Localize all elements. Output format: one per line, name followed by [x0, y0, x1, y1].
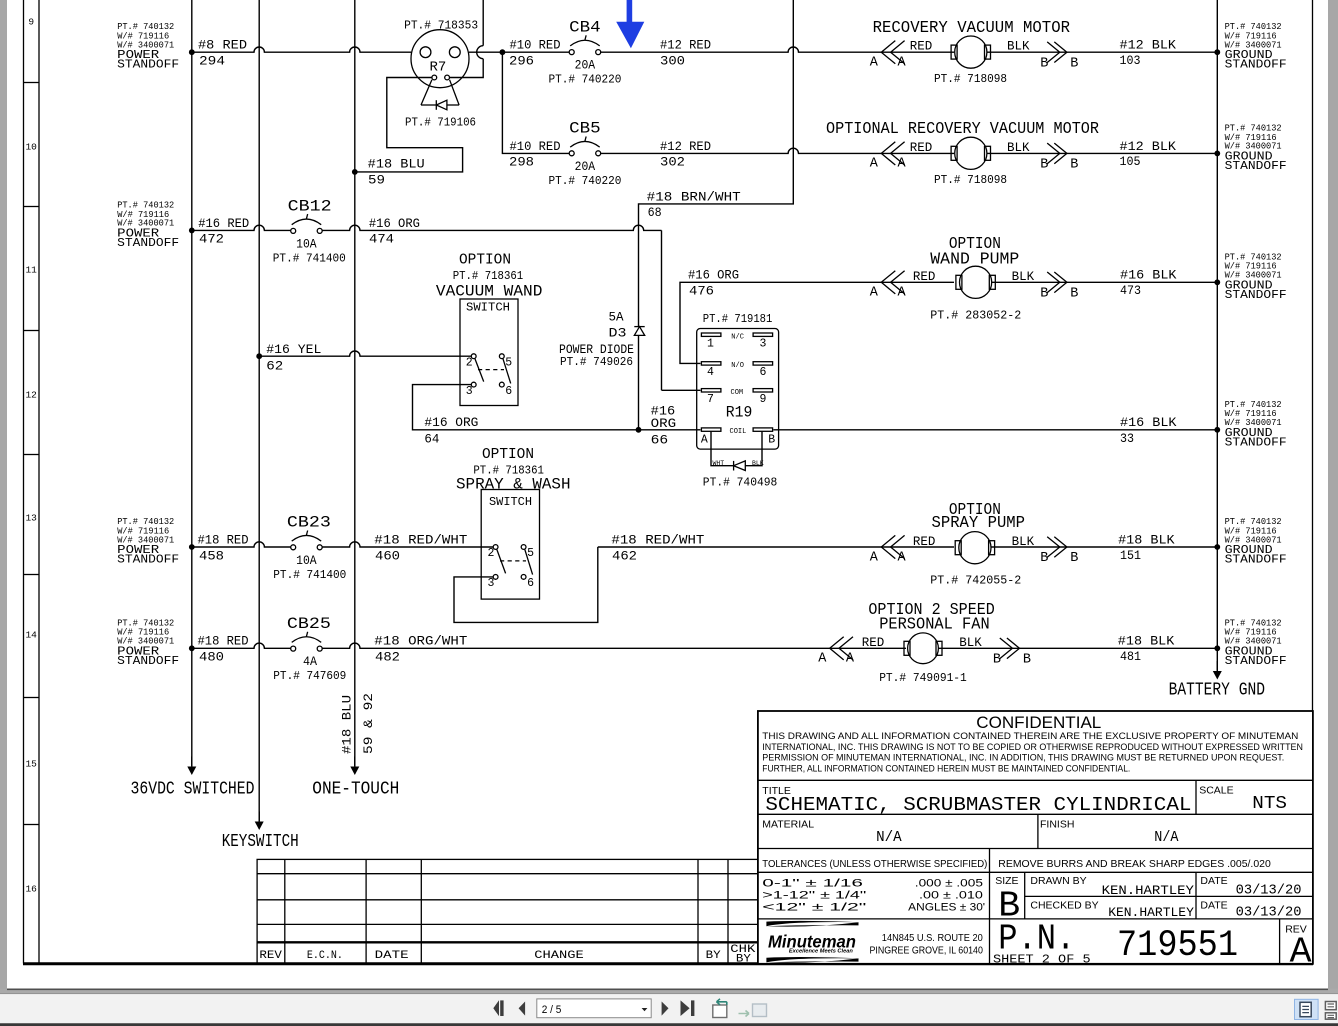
svg-text:#12 BLK: #12 BLK	[1120, 139, 1177, 154]
svg-text:CONFIDENTIAL: CONFIDENTIAL	[976, 713, 1101, 732]
cursor arrow (blue)	[616, 0, 644, 48]
svg-text:482: 482	[375, 650, 400, 665]
motor personal fan PT.# 749091-1	[879, 633, 967, 685]
wire #18 RED/WHT 462	[598, 532, 954, 563]
svg-text:PT.# 740220: PT.# 740220	[548, 174, 621, 188]
svg-text:BATTERY GND: BATTERY GND	[1169, 680, 1265, 701]
svg-text:SPRAY PUMP: SPRAY PUMP	[932, 513, 1026, 532]
svg-text:>1-12" ± 1/4": >1-12" ± 1/4"	[762, 889, 866, 901]
breaker CB4 20A PT.# 740220	[548, 19, 621, 87]
svg-text:9: 9	[28, 17, 34, 28]
svg-text:5A: 5A	[609, 310, 624, 325]
svg-text:BY: BY	[706, 950, 721, 962]
svg-text:B: B	[1040, 551, 1048, 566]
svg-text:A: A	[898, 157, 907, 172]
svg-text:INTERNATIONAL, INC. THIS DRAWI: INTERNATIONAL, INC. THIS DRAWING IS NOT …	[762, 742, 1303, 752]
svg-text:PT.# 742055-2: PT.# 742055-2	[930, 574, 1021, 588]
svg-text:59: 59	[368, 173, 385, 188]
svg-text:300: 300	[660, 54, 685, 69]
svg-text:3: 3	[488, 577, 495, 590]
svg-text:THIS DRAWING AND ALL INFORMATI: THIS DRAWING AND ALL INFORMATION CONTAIN…	[762, 731, 1298, 741]
svg-text:1: 1	[707, 337, 714, 350]
ground standoff row 9	[1225, 22, 1287, 71]
svg-text:BLK: BLK	[752, 460, 764, 467]
material / finish row	[762, 818, 1178, 845]
svg-text:4A: 4A	[303, 654, 317, 669]
svg-text:294: 294	[199, 54, 225, 69]
ground standoff row 14	[1225, 618, 1287, 668]
svg-text:#18 RED/WHT: #18 RED/WHT	[611, 532, 704, 547]
svg-text:2: 2	[488, 547, 495, 560]
breaker CB23 10A PT.# 741400	[273, 514, 346, 582]
wire #10 RED 298	[502, 52, 569, 170]
svg-text:36VDC SWITCHED: 36VDC SWITCHED	[131, 778, 255, 799]
svg-text:B: B	[1070, 287, 1078, 302]
motor wand pump PT.# 283052-2	[930, 266, 1021, 323]
switch SPRAY & WASH (box)	[481, 490, 539, 600]
svg-text:B: B	[1070, 158, 1078, 173]
svg-text:#12 RED: #12 RED	[660, 38, 711, 53]
svg-text:A: A	[870, 550, 879, 565]
svg-text:STANDOFF: STANDOFF	[117, 237, 179, 250]
svg-text:68: 68	[648, 205, 662, 220]
svg-text:15: 15	[25, 759, 37, 770]
svg-text:#18 BLU: #18 BLU	[368, 157, 425, 172]
svg-text:0-1" ± 1/16: 0-1" ± 1/16	[762, 878, 863, 890]
svg-text:PT.# 749026: PT.# 749026	[560, 356, 633, 369]
svg-text:#18 RED: #18 RED	[198, 634, 249, 649]
svg-text:Excellence Meets Clean: Excellence Meets Clean	[789, 948, 853, 954]
toolbar page combo box 2/5	[537, 999, 651, 1018]
breaker CB5 20A PT.# 740220	[548, 120, 621, 188]
svg-text:.00 ± .010: .00 ± .010	[919, 889, 983, 901]
svg-text:B: B	[1023, 653, 1031, 668]
svg-text:66: 66	[651, 433, 669, 448]
svg-text:DRAWN BY: DRAWN BY	[1030, 875, 1086, 887]
ground standoff row 10	[1225, 123, 1287, 173]
switch VACUUM WAND (box)	[460, 299, 518, 406]
motor recovery vacuum PT.# 718098	[934, 36, 1007, 86]
svg-text:ORG: ORG	[651, 416, 677, 431]
tolerances row	[762, 858, 1271, 914]
ground standoff row 13	[1225, 517, 1287, 567]
svg-text:PERSONAL FAN: PERSONAL FAN	[879, 614, 990, 633]
bus 36VDC SWITCHED (x=191.8)	[131, 0, 255, 799]
svg-text:#12 BLK: #12 BLK	[1120, 38, 1177, 53]
svg-text:STANDOFF: STANDOFF	[1225, 436, 1287, 449]
power standoff row 14	[117, 618, 179, 668]
ground standoff row 12	[1225, 400, 1287, 450]
svg-text:SHEET 2 OF 5: SHEET 2 OF 5	[993, 953, 1091, 967]
svg-text:N/C: N/C	[731, 333, 744, 341]
svg-text:3: 3	[466, 385, 473, 398]
connector A terminal	[870, 271, 907, 301]
svg-text:CB5: CB5	[569, 120, 601, 138]
revision table	[257, 859, 758, 965]
svg-text:COIL: COIL	[730, 428, 747, 436]
wire #16 ORG 474	[322, 216, 661, 390]
wire #16 BLK 473	[992, 268, 1221, 299]
svg-text:473: 473	[1120, 283, 1141, 298]
toolbar next view button (disabled)	[739, 1004, 767, 1017]
svg-text:SWITCH: SWITCH	[489, 496, 532, 509]
svg-text:CHECKED BY: CHECKED BY	[1030, 899, 1098, 911]
wire #12 BLK 105	[987, 139, 1220, 169]
wire #18 BLU 59 (R7 pin to ONE-TOUCH bus)	[352, 78, 463, 188]
svg-text:PT.# 719181: PT.# 719181	[703, 312, 773, 326]
svg-text:#18 RED/WHT: #18 RED/WHT	[374, 532, 467, 547]
svg-text:302: 302	[660, 155, 685, 170]
label RED / BLK wand pump	[913, 270, 1035, 284]
power diode D3 5A PT.# 749026	[559, 310, 645, 369]
svg-text:62: 62	[266, 358, 283, 373]
svg-text:11: 11	[25, 265, 37, 276]
wire #18 BLK 151	[991, 532, 1220, 563]
svg-text:CB23: CB23	[287, 514, 331, 532]
connector B terminal	[1040, 537, 1078, 567]
svg-text:64: 64	[424, 431, 439, 446]
svg-text:33: 33	[1120, 431, 1134, 446]
svg-text:#18 BLU: #18 BLU	[341, 695, 355, 754]
svg-text:PT.# 719106: PT.# 719106	[405, 116, 476, 130]
svg-text:KEN.HARTLEY: KEN.HARTLEY	[1108, 905, 1194, 920]
svg-text:TOLERANCES (UNLESS OTHERWISE S: TOLERANCES (UNLESS OTHERWISE SPECIFIED)	[762, 858, 987, 870]
svg-text:CB12: CB12	[288, 197, 332, 215]
part number cell	[993, 918, 1238, 967]
svg-text:A: A	[898, 286, 907, 301]
wire #16 ORG 476 (R19 N/O to wand pump)	[680, 268, 954, 364]
svg-text:2: 2	[466, 356, 473, 369]
wire #10 RED 296	[469, 38, 569, 69]
svg-text:105: 105	[1120, 154, 1141, 169]
svg-text:ONE-TOUCH: ONE-TOUCH	[312, 778, 399, 799]
size / drawn / checked cells	[995, 875, 1301, 926]
wire switch pin3 loop to 462	[454, 547, 598, 622]
connector A terminal	[818, 637, 855, 667]
svg-text:PT.# 741400: PT.# 741400	[273, 568, 346, 582]
svg-text:RED: RED	[910, 40, 933, 54]
svg-text:.000 ± .005: .000 ± .005	[915, 878, 983, 890]
svg-text:B: B	[993, 653, 1001, 668]
svg-text:KEYSWITCH: KEYSWITCH	[222, 831, 299, 852]
svg-text:D3: D3	[609, 325, 627, 340]
motor spray pump PT.# 742055-2	[930, 532, 1021, 588]
confidential notice	[762, 713, 1303, 773]
svg-text:474: 474	[369, 232, 394, 247]
svg-text:A: A	[846, 652, 855, 667]
wire #18 BLK 481	[939, 634, 1220, 665]
svg-text:E.C.N.: E.C.N.	[307, 950, 343, 962]
viewer bottom chrome	[0, 989, 1338, 1026]
svg-text:A: A	[1290, 932, 1312, 973]
svg-text:5: 5	[505, 356, 512, 369]
label OPTION WAND PUMP	[930, 234, 1019, 269]
label OPTION / PT.# 718361 / VACUUM WAND	[436, 253, 543, 301]
svg-text:A: A	[870, 157, 879, 172]
wire #16 YEL 62	[256, 342, 471, 374]
svg-text:DATE: DATE	[375, 950, 410, 962]
relay R19 PT.# 719181	[697, 312, 779, 449]
svg-text:STANDOFF: STANDOFF	[117, 59, 179, 72]
svg-text:PT.# 718098: PT.# 718098	[934, 173, 1007, 187]
svg-text:460: 460	[375, 548, 400, 563]
svg-text:480: 480	[199, 650, 224, 665]
power standoff row 13	[117, 517, 179, 567]
address	[870, 932, 984, 957]
svg-text:OPTION: OPTION	[482, 447, 534, 463]
continuous page view button	[1325, 1002, 1336, 1020]
svg-text:PT.# 740498: PT.# 740498	[703, 475, 778, 489]
svg-text:10: 10	[25, 142, 37, 153]
breaker CB25 4A PT.# 747609	[273, 615, 346, 683]
svg-text:6: 6	[505, 385, 512, 398]
svg-text:A: A	[898, 56, 907, 71]
svg-text:PT.# 741400: PT.# 741400	[273, 251, 346, 265]
svg-text:STANDOFF: STANDOFF	[1225, 655, 1287, 668]
svg-text:WAND PUMP: WAND PUMP	[930, 249, 1019, 268]
svg-text:#16 BLK: #16 BLK	[1120, 415, 1177, 430]
connector A terminal	[870, 41, 907, 71]
svg-text:151: 151	[1120, 548, 1141, 563]
svg-text:10A: 10A	[296, 236, 317, 251]
svg-text:103: 103	[1120, 53, 1141, 68]
toolbar previous page button	[519, 1002, 526, 1016]
svg-text:10A: 10A	[296, 553, 317, 568]
label OPTION SPRAY PUMP	[932, 500, 1026, 532]
svg-text:59 & 92: 59 & 92	[362, 693, 376, 754]
connector A terminal	[870, 535, 907, 565]
svg-text:STANDOFF: STANDOFF	[1225, 289, 1287, 302]
svg-text:6: 6	[527, 577, 534, 590]
svg-text:12: 12	[25, 390, 37, 401]
svg-text:#18 ORG/WHT: #18 ORG/WHT	[374, 634, 467, 649]
svg-text:#18 BLK: #18 BLK	[1118, 532, 1175, 547]
svg-text:CB4: CB4	[569, 19, 601, 37]
wire #16 ORG 66 (coil feed)	[639, 404, 701, 448]
svg-text:CHANGE: CHANGE	[534, 950, 584, 962]
svg-text:A: A	[898, 550, 907, 565]
toolbar previous view button	[713, 999, 727, 1018]
svg-text:R19: R19	[726, 404, 753, 422]
svg-text:#10 RED: #10 RED	[510, 38, 561, 53]
label RED / BLK fan	[862, 636, 983, 650]
svg-text:B: B	[1070, 551, 1078, 566]
svg-text:RED: RED	[913, 535, 936, 549]
toolbar next page button	[662, 1002, 669, 1016]
wire #18 RED 480	[189, 634, 291, 665]
svg-text:PT.# 718353: PT.# 718353	[404, 18, 478, 32]
svg-text:SCALE: SCALE	[1199, 785, 1233, 797]
wire #16 ORG 64 (switch pin 3 to D3 junction)	[413, 385, 639, 447]
connector B terminal	[993, 638, 1031, 668]
svg-text:PT.# 749091-1: PT.# 749091-1	[879, 671, 967, 685]
title block frame	[758, 711, 1313, 964]
svg-text:A: A	[701, 434, 708, 447]
connector B terminal	[1040, 42, 1078, 72]
svg-text:03/13/20: 03/13/20	[1236, 883, 1302, 898]
svg-text:#16 BLK: #16 BLK	[1120, 268, 1177, 283]
power standoff row 9 (PT.# 740132)	[117, 22, 179, 71]
svg-text:SPRAY & WASH: SPRAY & WASH	[456, 475, 571, 493]
svg-text:#12 RED: #12 RED	[660, 139, 711, 154]
svg-text:A: A	[818, 652, 827, 667]
svg-text:481: 481	[1120, 649, 1141, 664]
svg-text:#18 RED: #18 RED	[198, 532, 249, 547]
title row	[762, 785, 1287, 817]
svg-text:B: B	[1040, 56, 1048, 71]
label RED / BLK row9	[910, 40, 1030, 54]
svg-text:VACUUM WAND: VACUUM WAND	[436, 282, 543, 300]
svg-text:N/O: N/O	[731, 362, 744, 370]
wire #8 RED 294	[189, 38, 411, 69]
svg-text:9: 9	[760, 393, 767, 406]
motor optional recovery vacuum PT.# 718098	[934, 137, 1007, 187]
svg-text:WHT: WHT	[713, 460, 725, 467]
power standoff row 11	[117, 200, 179, 250]
ground standoff row 11 (wand pump)	[1225, 252, 1287, 302]
svg-text:RED: RED	[910, 141, 933, 155]
svg-text:B: B	[1070, 56, 1078, 71]
relay coil suppression diode PT.# 740498	[703, 431, 778, 489]
svg-text:2 / 5: 2 / 5	[542, 1004, 562, 1016]
wire #12 RED 302	[601, 139, 954, 170]
svg-text:BY: BY	[736, 953, 751, 965]
single page view button (active)	[1295, 999, 1319, 1019]
svg-text:MATERIAL: MATERIAL	[762, 818, 814, 830]
svg-text:296: 296	[509, 54, 534, 69]
wire #18 RED/WHT 460	[322, 532, 493, 563]
connector B terminal	[1040, 143, 1078, 173]
label RED / BLK spray pump	[913, 535, 1035, 549]
ground bus BATTERY GND	[1169, 0, 1265, 701]
svg-text:STANDOFF: STANDOFF	[1225, 59, 1287, 72]
connector B terminal	[1040, 272, 1078, 302]
label OPTION / PT.# 718361 / SPRAY & WASH	[456, 447, 571, 493]
svg-text:719551: 719551	[1117, 925, 1238, 967]
svg-text:CB25: CB25	[287, 615, 331, 633]
toolbar first page button	[493, 1000, 503, 1016]
svg-text:DATE: DATE	[1200, 875, 1227, 887]
svg-text:B: B	[1040, 158, 1048, 173]
svg-text:STANDOFF: STANDOFF	[117, 655, 179, 668]
junction D3 / ORG 64 / 66	[636, 427, 642, 433]
svg-text:#16 YEL: #16 YEL	[266, 342, 321, 357]
wire #12 BLK 103	[987, 38, 1220, 68]
svg-text:20A: 20A	[575, 58, 596, 73]
svg-text:298: 298	[509, 155, 534, 170]
svg-text:<12" ± 1/2": <12" ± 1/2"	[762, 902, 866, 914]
row numbers 9-16	[25, 17, 37, 895]
svg-text:STANDOFF: STANDOFF	[117, 554, 179, 567]
svg-text:#18 BRN/WHT: #18 BRN/WHT	[647, 189, 741, 204]
svg-text:#16 ORG: #16 ORG	[369, 216, 420, 231]
wire #18 BRN/WHT 68	[639, 0, 794, 430]
wire R7 shell return to top bus (x=483)	[450, 0, 484, 78]
wire #18 ORG/WHT 482	[322, 634, 906, 665]
wire #16 RED 472	[189, 216, 291, 247]
svg-text:476: 476	[689, 284, 714, 299]
svg-text:N/A: N/A	[1154, 829, 1178, 846]
svg-text:R7: R7	[430, 60, 447, 76]
svg-text:STANDOFF: STANDOFF	[1225, 554, 1287, 567]
svg-text:PT.# 283052-2: PT.# 283052-2	[930, 309, 1021, 323]
svg-text:PERMISSION OF MINUTEMAN INTERN: PERMISSION OF MINUTEMAN INTERNATIONAL, I…	[762, 753, 1284, 763]
svg-text:REV: REV	[259, 950, 282, 962]
svg-text:REMOVE BURRS AND BREAK SHARP E: REMOVE BURRS AND BREAK SHARP EDGES .005/…	[998, 858, 1271, 870]
svg-text:#16 ORG: #16 ORG	[424, 415, 478, 430]
svg-text:OPTION: OPTION	[459, 253, 511, 269]
svg-text:3: 3	[760, 337, 767, 350]
svg-text:#10 RED: #10 RED	[510, 139, 561, 154]
connector R7 (PT.# 718353)	[404, 18, 478, 87]
rev cell	[1285, 923, 1311, 972]
svg-text:PT.# 740220: PT.# 740220	[548, 73, 621, 87]
svg-text:SCHEMATIC, SCRUBMASTER CYLINDR: SCHEMATIC, SCRUBMASTER CYLINDRICAL	[765, 794, 1191, 816]
svg-text:DATE: DATE	[1200, 899, 1227, 911]
label RED / BLK row10	[910, 141, 1030, 155]
svg-text:458: 458	[199, 548, 224, 563]
label OPTION 2 SPEED PERSONAL FAN	[868, 600, 994, 633]
svg-text:16: 16	[25, 884, 37, 895]
svg-text:RED: RED	[862, 636, 885, 650]
svg-text:COM: COM	[731, 389, 744, 397]
svg-text:14: 14	[25, 630, 37, 641]
svg-text:OPTIONAL RECOVERY VACUUM MOTOR: OPTIONAL RECOVERY VACUUM MOTOR	[826, 119, 1099, 138]
wire #12 RED 300	[601, 38, 954, 69]
svg-text:A: A	[870, 56, 879, 71]
wire #16 BLK 33 (coil return to ground)	[773, 415, 1220, 446]
svg-text:B: B	[1040, 287, 1048, 302]
svg-text:B: B	[768, 434, 775, 447]
svg-text:472: 472	[199, 232, 224, 247]
svg-text:462: 462	[612, 548, 637, 563]
svg-text:RED: RED	[913, 270, 936, 284]
svg-text:ANGLES ± 30': ANGLES ± 30'	[908, 902, 985, 914]
svg-text:14N845 U.S. ROUTE 20: 14N845 U.S. ROUTE 20	[882, 932, 983, 944]
bus KEYSWITCH (x=259.2)	[222, 0, 299, 852]
svg-text:#16 ORG: #16 ORG	[688, 268, 739, 283]
svg-text:7: 7	[707, 393, 714, 406]
svg-text:A: A	[870, 286, 879, 301]
connector A terminal	[870, 142, 907, 172]
toolbar last page button	[681, 1000, 695, 1016]
svg-text:PT.# 747609: PT.# 747609	[273, 669, 346, 683]
svg-text:KEN.HARTLEY: KEN.HARTLEY	[1102, 883, 1194, 898]
breaker CB12 10A PT.# 741400	[273, 197, 346, 265]
svg-text:FINISH: FINISH	[1040, 818, 1074, 830]
wire #18 RED 458	[189, 532, 291, 563]
svg-text:PT.# 718361: PT.# 718361	[453, 269, 524, 283]
svg-text:6: 6	[760, 366, 767, 379]
svg-text:FURTHER, ALL INFORMATION CONTA: FURTHER, ALL INFORMATION CONTAINED HEREI…	[762, 763, 1130, 773]
svg-text:#18 BLK: #18 BLK	[1118, 634, 1175, 649]
svg-text:03/13/20: 03/13/20	[1236, 905, 1302, 920]
wire COM to row 11 handled above	[662, 389, 701, 392]
svg-text:SWITCH: SWITCH	[466, 302, 510, 315]
svg-text:4: 4	[707, 366, 714, 379]
svg-text:13: 13	[25, 513, 37, 524]
svg-text:RECOVERY VACUUM MOTOR: RECOVERY VACUUM MOTOR	[873, 18, 1070, 37]
minuteman logo	[766, 921, 858, 963]
svg-text:PINGREE GROVE, IL 60140: PINGREE GROVE, IL 60140	[870, 944, 984, 956]
svg-text:PT.# 718098: PT.# 718098	[934, 72, 1007, 86]
svg-text:20A: 20A	[575, 159, 596, 174]
svg-text:NTS: NTS	[1252, 794, 1287, 814]
svg-text:STANDOFF: STANDOFF	[1225, 160, 1287, 173]
svg-text:#8 RED: #8 RED	[198, 38, 247, 53]
svg-text:#16 RED: #16 RED	[198, 216, 249, 231]
bus ONE-TOUCH (x=354.8)	[312, 0, 399, 799]
